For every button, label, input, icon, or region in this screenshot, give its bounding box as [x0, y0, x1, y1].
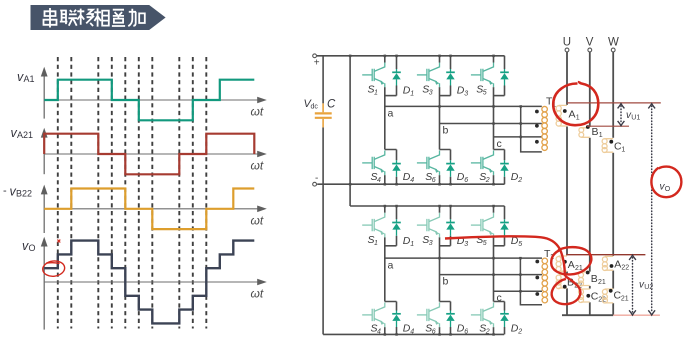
svg-text:c: c: [497, 292, 502, 304]
jog wires to bottom devices: [385, 150, 397, 185]
inverter 2 device labels: [368, 234, 523, 336]
svg-text:6: 6: [432, 329, 436, 336]
Vdc label: [304, 98, 319, 111]
svg-text:ωt: ωt: [251, 105, 264, 119]
W terminal: [611, 48, 615, 52]
svg-text:1: 1: [374, 240, 378, 247]
vU1 label: [626, 110, 640, 122]
svg-text:2: 2: [517, 177, 522, 184]
svg-text:a: a: [388, 108, 394, 120]
svg-text:V: V: [586, 37, 594, 49]
T1 label: [546, 96, 556, 109]
vO measurement arrow: [648, 104, 655, 315]
IGBT S4 (inverter 2): [362, 303, 385, 328]
vU2 reference line (node A21 top): [566, 254, 645, 256]
waveform row 2 axes (vA21): [41, 128, 267, 174]
IGBT S1: [362, 63, 385, 88]
svg-text:3: 3: [429, 240, 433, 247]
svg-text:B22: B22: [16, 189, 32, 199]
diode D4: [392, 160, 401, 177]
vU1 reference line (node A1 top): [567, 102, 661, 104]
svg-text:O: O: [665, 186, 671, 193]
node a wire: [385, 105, 542, 107]
junction dots: [349, 55, 522, 336]
mid connection wires top devices: [385, 95, 397, 97]
node a wire (inverter 2): [385, 257, 542, 259]
vertical feed to inverter 2 top rail: [349, 56, 351, 206]
svg-text:A: A: [569, 109, 576, 121]
A21 label: [568, 259, 583, 272]
svg-text:B: B: [591, 273, 598, 285]
red annotation ellipse on vO first step: [42, 240, 66, 278]
svg-text:A: A: [568, 259, 575, 271]
C1 polarity dot: [609, 140, 613, 144]
label vA1: [17, 70, 264, 119]
svg-text:-: -: [315, 173, 318, 184]
svg-text:1: 1: [374, 90, 378, 97]
svg-text:O: O: [29, 243, 36, 253]
diode D3: [446, 69, 455, 86]
T2 primary return bus: [520, 258, 542, 305]
A22 label: [614, 259, 629, 272]
svg-text:6: 6: [432, 177, 436, 184]
node c wire (inverter 2): [494, 290, 543, 292]
top DC rail inverter 2: [350, 205, 504, 207]
T2 label: [544, 248, 554, 261]
secondary winding A1: [556, 105, 567, 126]
svg-text:1: 1: [410, 91, 414, 98]
A1 polarity dot: [563, 109, 567, 113]
B1 polarity dot: [586, 125, 590, 129]
vU1 measurement arrow: [618, 104, 625, 126]
C22 polarity dot: [586, 294, 590, 298]
svg-text:a: a: [388, 259, 394, 271]
label vA21: [11, 126, 264, 173]
svg-text:C: C: [327, 99, 336, 111]
svg-text:ωt: ωt: [251, 286, 264, 300]
C21 label: [614, 290, 629, 303]
red annotation lasso around A21 and B22: [445, 236, 591, 304]
B22 label: [567, 277, 582, 290]
secondary winding B22: [556, 275, 567, 289]
T1 primary polarity dots: [535, 110, 539, 144]
svg-text:3: 3: [429, 90, 433, 97]
waveform -vB22 (orange): [44, 189, 254, 230]
svg-text:2: 2: [517, 329, 522, 336]
T2 primary winding: [542, 258, 548, 303]
svg-text:5: 5: [518, 241, 522, 248]
svg-text:4: 4: [410, 329, 414, 336]
svg-text:dc: dc: [311, 104, 319, 111]
vU1 reference line (node B1 top): [587, 125, 629, 127]
T1 primary winding: [542, 106, 548, 150]
C21 polarity dot: [609, 289, 613, 293]
svg-text:1: 1: [599, 132, 603, 139]
node b wire (inverter 2): [440, 274, 543, 276]
waveform row 3 axes (-vB22): [41, 185, 267, 233]
A1 label: [569, 109, 580, 122]
IGBT S4: [362, 151, 385, 176]
node c wire: [494, 136, 542, 138]
svg-text:4: 4: [410, 177, 414, 184]
svg-text:2: 2: [485, 329, 490, 336]
svg-text:21: 21: [621, 296, 629, 303]
vU2 measurement arrow: [629, 255, 636, 315]
B21 polarity dot: [586, 271, 590, 275]
svg-text:2: 2: [485, 177, 490, 184]
waveform panel dashed grid: [58, 57, 207, 329]
diode D5 (inverter 2): [500, 219, 509, 236]
U line segments: [566, 52, 568, 315]
svg-text:4: 4: [377, 329, 381, 336]
waveform row 1 axes (vA1): [41, 67, 267, 119]
title banner 串联移相叠加: [31, 5, 166, 30]
left DC bus vertical: [322, 56, 324, 335]
W line segments: [612, 52, 614, 315]
IGBT S3: [417, 63, 440, 88]
secondary winding A21: [556, 256, 567, 272]
IGBT S6 (inverter 2): [417, 303, 440, 328]
svg-text:1: 1: [410, 241, 414, 248]
svg-text:A21: A21: [17, 130, 33, 140]
phase wires inverter 1 to T1: [385, 106, 542, 151]
svg-text:-: -: [3, 185, 7, 197]
IGBT S3 (inverter 2): [417, 213, 440, 238]
V line segments: [589, 52, 591, 315]
vO bottom reference line (pink): [613, 314, 660, 316]
vO label: [660, 182, 671, 194]
diode D1: [392, 69, 401, 86]
vU2 label: [639, 280, 653, 292]
secondary winding C22: [579, 289, 590, 303]
svg-text:21: 21: [598, 279, 606, 286]
V terminal: [588, 48, 592, 52]
label -vB22: [3, 185, 264, 228]
svg-text:b: b: [443, 276, 449, 288]
diode D6: [446, 160, 455, 177]
red annotation circle around A1: [553, 81, 598, 125]
svg-text:6: 6: [464, 177, 468, 184]
A21 polarity dot: [563, 260, 567, 264]
串: [44, 8, 57, 28]
phase wires inverter 2 to T2: [385, 258, 542, 305]
red annotation circle around vO label: [651, 167, 681, 198]
secondary neutral bus: [562, 314, 613, 316]
diode D3 (inverter 2): [446, 219, 455, 236]
IGBT S2: [471, 151, 494, 176]
diode D2: [500, 160, 509, 177]
plus terminal: [313, 54, 317, 58]
svg-text:ωt: ωt: [251, 159, 264, 173]
IGBT S6: [417, 151, 440, 176]
capacitor C plates: [315, 103, 332, 127]
secondary winding B21: [579, 272, 590, 286]
INVERTER 1 leg wires: [385, 56, 505, 184]
svg-text:3: 3: [464, 91, 468, 98]
secondary winding C1: [602, 139, 613, 153]
bottom DC rail inverter 2: [323, 333, 504, 335]
svg-text:22: 22: [621, 265, 629, 272]
U terminal: [565, 48, 569, 52]
svg-text:W: W: [608, 37, 619, 49]
leg wires inverter 2: [385, 206, 505, 334]
minus terminal: [313, 182, 317, 186]
svg-text:A: A: [614, 259, 621, 271]
svg-text:A1: A1: [24, 74, 35, 84]
top DC rail inverter 1: [317, 55, 505, 57]
diode D6 (inverter 2): [446, 311, 455, 328]
A22 polarity dot: [610, 264, 614, 268]
secondary winding C21: [602, 289, 613, 303]
waveform row 4 axes (vO): [41, 237, 267, 330]
bottom DC rail inverter 1: [317, 183, 504, 185]
diode D2 (inverter 2): [500, 311, 509, 328]
diode D5: [500, 69, 509, 86]
waveform vA21 (brick red): [44, 134, 254, 175]
label vO: [22, 239, 264, 300]
svg-text:5: 5: [483, 90, 487, 97]
svg-text:1: 1: [621, 147, 625, 154]
svg-text:c: c: [497, 138, 502, 150]
T1 primary return bus: [521, 106, 542, 151]
IGBT S2 (inverter 2): [471, 303, 494, 328]
叠: [112, 10, 125, 26]
svg-text:5: 5: [483, 240, 487, 247]
IGBT S5: [471, 63, 494, 88]
相: [94, 8, 108, 26]
svg-text:B: B: [592, 126, 599, 138]
secondary winding B1: [579, 128, 590, 138]
IGBT S1 (inverter 2): [362, 213, 385, 238]
diode D1 (inverter 2): [392, 219, 401, 236]
C1 label: [614, 141, 625, 154]
C22 label: [591, 291, 606, 304]
联: [60, 10, 77, 26]
svg-text:b: b: [443, 125, 449, 137]
B1 label: [592, 126, 603, 139]
inverter 1 device labels: [368, 84, 523, 185]
svg-text:4: 4: [377, 177, 381, 184]
svg-text:6: 6: [464, 329, 468, 336]
IGBT S5 (inverter 2): [471, 213, 494, 238]
svg-text:1: 1: [576, 115, 580, 122]
svg-text:U1: U1: [631, 115, 640, 122]
T2 primary polarity dots: [535, 260, 539, 296]
svg-text:U: U: [563, 37, 571, 49]
B22 polarity dot: [563, 285, 567, 289]
secondary winding A22: [602, 256, 613, 270]
移: [77, 9, 94, 26]
svg-text:3: 3: [464, 241, 468, 248]
waveform vA1 (teal): [44, 80, 254, 121]
B21 label: [591, 273, 606, 286]
node b wire: [440, 123, 542, 125]
svg-text:+: +: [314, 57, 320, 68]
U V W phase labels: [563, 37, 619, 49]
svg-text:ωt: ωt: [251, 213, 264, 227]
diode D4 (inverter 2): [392, 311, 401, 328]
加: [128, 9, 145, 26]
waveform vO (dark slate staircase): [44, 241, 254, 324]
